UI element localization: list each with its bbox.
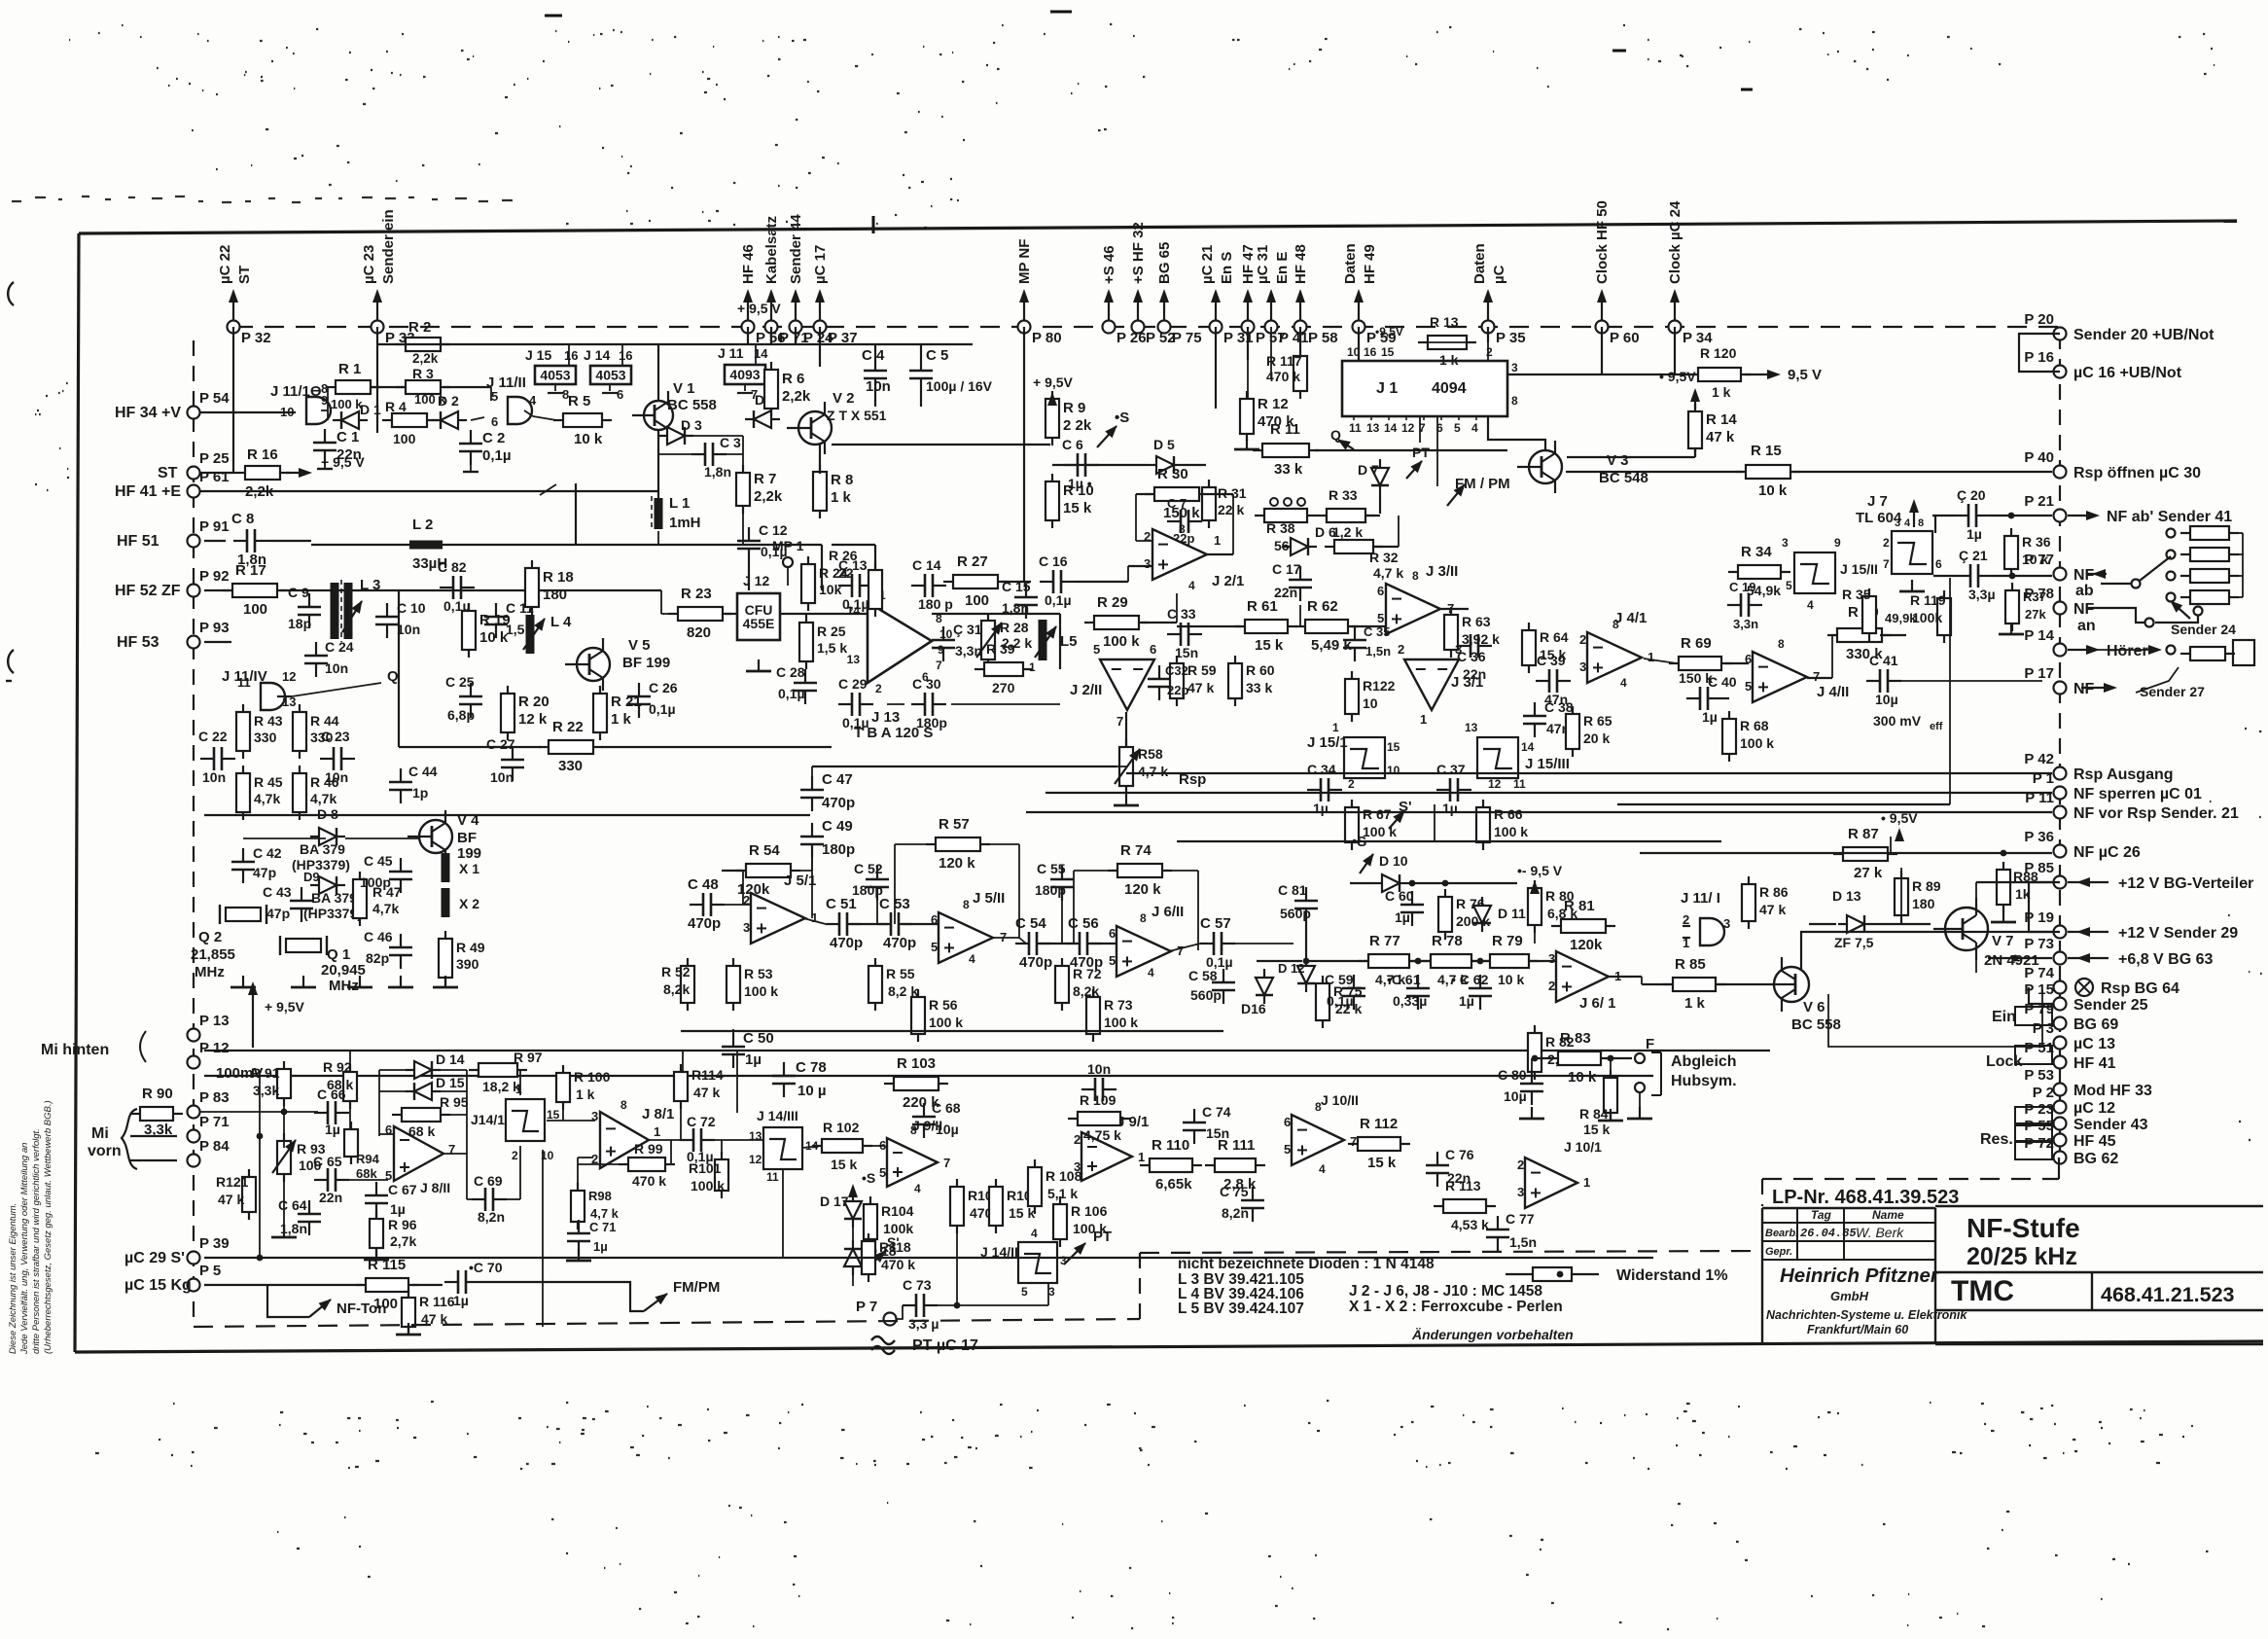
NF-Ton switch xyxy=(267,1285,309,1317)
resistor R37 xyxy=(2005,583,2019,631)
node P59 top connector xyxy=(1358,292,1360,321)
inductor L5 xyxy=(1039,620,1047,660)
wire +9.5V rail xyxy=(377,343,973,345)
svg-text:6: 6 xyxy=(617,387,623,402)
svg-text:8: 8 xyxy=(620,1098,627,1112)
svg-text:8: 8 xyxy=(1511,394,1518,408)
wire xyxy=(795,327,797,344)
svg-text:33 k: 33 k xyxy=(1246,680,1272,695)
wire xyxy=(533,416,556,420)
svg-text:R 119: R 119 xyxy=(1910,592,1946,608)
svg-text:1,8n: 1,8n xyxy=(1002,600,1029,616)
svg-text:10: 10 xyxy=(1387,764,1400,777)
capacitor C58 xyxy=(1212,969,1235,1004)
wire xyxy=(1315,449,1507,451)
wire xyxy=(268,540,311,542)
resistor R78 xyxy=(1421,954,1481,968)
border frame left xyxy=(75,233,79,1352)
svg-text:10 k: 10 k xyxy=(574,431,603,447)
capacitor C37 xyxy=(1436,778,1471,802)
inductor L1 xyxy=(655,498,663,529)
node P20 right connector xyxy=(2054,328,2067,340)
svg-text:10: 10 xyxy=(1363,695,1378,711)
node P26 top connector xyxy=(1108,292,1110,321)
title block box xyxy=(1762,1207,1935,1209)
ground xyxy=(1114,794,1139,805)
svg-text:C 66: C 66 xyxy=(317,1087,346,1102)
IC J1 4094 xyxy=(1342,361,1507,416)
svg-text:C 50: C 50 xyxy=(743,1030,774,1047)
resistor R119 xyxy=(1937,590,1951,643)
wire xyxy=(1116,766,1126,767)
svg-text:• C 62: • C 62 xyxy=(1451,972,1489,987)
svg-text:7: 7 xyxy=(943,1156,950,1170)
svg-text:µC 12: µC 12 xyxy=(2073,1100,2115,1117)
svg-text:X 1: X 1 xyxy=(459,861,479,876)
svg-text:C 74: C 74 xyxy=(1202,1104,1231,1120)
wire xyxy=(575,483,577,545)
wire xyxy=(1440,608,1469,610)
wire xyxy=(794,870,812,872)
wire xyxy=(819,344,821,367)
svg-text:Heinrich Pfitzner: Heinrich Pfitzner xyxy=(1780,1265,1939,1287)
ground xyxy=(396,1323,421,1335)
svg-text:• 9,5V: • 9,5V xyxy=(1659,369,1696,384)
wire xyxy=(780,613,868,615)
svg-text:4094: 4094 xyxy=(1432,380,1467,397)
svg-text:4,7k: 4,7k xyxy=(254,791,280,806)
wire xyxy=(1052,464,1148,466)
diode D12 xyxy=(1297,957,1315,992)
svg-text:J 14: J 14 xyxy=(584,347,610,363)
svg-text:R 36: R 36 xyxy=(2022,534,2051,550)
wire xyxy=(524,410,533,416)
wire xyxy=(321,410,328,411)
svg-text:R 63: R 63 xyxy=(1462,614,1491,629)
wire xyxy=(467,1198,472,1200)
wire xyxy=(1694,391,1696,409)
svg-text:R 23: R 23 xyxy=(681,586,712,602)
wire 100mV drop xyxy=(259,1075,261,1258)
capacitor C2 xyxy=(459,430,482,465)
FM/PM switch xyxy=(603,1282,644,1311)
wire NF vor Rsp xyxy=(1026,811,2052,813)
crystal Q2 xyxy=(220,905,266,924)
svg-text:P 51: P 51 xyxy=(2024,1040,2054,1056)
diode D4 xyxy=(745,410,780,428)
svg-text:100: 100 xyxy=(243,601,267,618)
svg-text:•9,5V: •9,5V xyxy=(1375,325,1403,338)
svg-text:C 81: C 81 xyxy=(1278,882,1307,898)
wire xyxy=(651,496,653,531)
svg-text:100 k: 100 k xyxy=(1740,735,1774,751)
svg-text:L 1: L 1 xyxy=(669,495,690,512)
svg-text:820: 820 xyxy=(687,624,711,641)
wire P85-P19 bracket xyxy=(2029,882,2060,932)
svg-text:10n: 10n xyxy=(202,769,226,785)
title block line xyxy=(1935,1205,2263,1208)
node P84 left connector xyxy=(188,1155,200,1167)
svg-text:10n: 10n xyxy=(490,769,514,785)
wire xyxy=(1409,960,1431,962)
svg-text:L 4: L 4 xyxy=(550,614,572,630)
svg-text:Diese Zeichnung ist unser Eige: Diese Zeichnung ist unser Eigentum. xyxy=(8,1203,18,1354)
wire xyxy=(1142,622,1177,624)
node P21 right connector xyxy=(2054,510,2067,522)
box around P 23 xyxy=(2015,1107,2052,1125)
node P58 top connector xyxy=(1299,292,1301,321)
capacitor C43 xyxy=(290,887,313,922)
svg-text:J 2 - J 6, J8 - J10 : MC 14: J 2 - J 6, J8 - J10 : MC 1458 xyxy=(1349,1283,1542,1300)
svg-text:BF 199: BF 199 xyxy=(622,655,670,671)
svg-text:R 95: R 95 xyxy=(440,1094,469,1110)
capacitor C27 xyxy=(501,746,524,781)
node P79 right connector xyxy=(2054,1017,2067,1030)
svg-text:µC 16 +UB/Not: µC 16 +UB/Not xyxy=(2073,365,2182,381)
svg-text:C 33: C 33 xyxy=(1167,606,1196,622)
wire xyxy=(1901,680,2042,682)
wire xyxy=(547,1120,595,1122)
capacitor C59 xyxy=(1342,975,1365,1010)
svg-text:P 34: P 34 xyxy=(1683,330,1713,346)
svg-text:NF µC 26: NF µC 26 xyxy=(2073,844,2141,861)
svg-text:4,53 k: 4,53 k xyxy=(1451,1217,1489,1232)
svg-text:2: 2 xyxy=(1683,912,1689,927)
svg-text:470 k: 470 k xyxy=(632,1173,666,1189)
svg-text:BG 65: BG 65 xyxy=(1156,242,1173,284)
resistor R46 xyxy=(293,766,306,820)
op-amp J6/I xyxy=(1556,951,1609,1002)
node switch xyxy=(2194,607,2203,616)
svg-text:220 k: 220 k xyxy=(903,1094,939,1111)
resistor R88 xyxy=(1997,862,2010,912)
wire to Rsp xyxy=(812,766,1116,767)
wire xyxy=(243,837,326,839)
svg-text:3,3k: 3,3k xyxy=(144,1122,173,1138)
resistor R69 xyxy=(1669,657,1731,670)
svg-text:ZF 7,5: ZF 7,5 xyxy=(1834,935,1874,950)
capacitor C77 xyxy=(1486,1216,1509,1251)
svg-text:15: 15 xyxy=(547,1108,560,1122)
svg-text:15 k: 15 k xyxy=(1009,1205,1035,1221)
svg-text:Clock µC 24: Clock µC 24 xyxy=(1667,200,1683,284)
svg-text:J 3/1: J 3/1 xyxy=(1451,674,1483,691)
svg-text:1: 1 xyxy=(1648,650,1654,664)
wire xyxy=(1074,870,1108,872)
capacitor C31 xyxy=(932,626,955,661)
svg-text:26.04.85: 26.04.85 xyxy=(1800,1227,1857,1240)
wire dashed xyxy=(1762,1178,2059,1180)
svg-text:8: 8 xyxy=(963,898,970,911)
wire xyxy=(902,923,939,925)
svg-text:14: 14 xyxy=(1384,421,1398,435)
svg-text:HF 48: HF 48 xyxy=(1293,244,1309,284)
svg-text:1: 1 xyxy=(515,1083,522,1096)
svg-text:C 24: C 24 xyxy=(325,639,354,655)
svg-text:1µ: 1µ xyxy=(390,1201,406,1217)
svg-text:C 2: C 2 xyxy=(482,430,505,446)
svg-text:C 80: C 80 xyxy=(1498,1067,1527,1083)
svg-text:P 16: P 16 xyxy=(2024,349,2054,366)
svg-text:P 42: P 42 xyxy=(2024,751,2054,767)
box around P 51 xyxy=(2015,1046,2052,1064)
wire xyxy=(1299,327,1301,348)
capacitor C72 xyxy=(680,1128,715,1152)
svg-text:15 k: 15 k xyxy=(831,1157,857,1172)
diode D8 xyxy=(310,828,345,845)
svg-text:33 k: 33 k xyxy=(1274,461,1303,478)
diode D17 xyxy=(844,1193,862,1228)
svg-text:C 57: C 57 xyxy=(1200,915,1231,932)
resistor R9 xyxy=(1045,391,1059,445)
svg-text:100: 100 xyxy=(965,592,989,609)
svg-text:Res.: Res. xyxy=(1980,1131,2013,1148)
svg-text:3: 3 xyxy=(1048,1285,1055,1299)
paper punch mark xyxy=(8,282,14,305)
wire xyxy=(1471,960,1490,962)
wire xyxy=(1434,804,1435,841)
resistor R21 xyxy=(593,686,607,740)
node P85 right connector xyxy=(2054,876,2067,889)
node P57 top connector xyxy=(1247,292,1249,321)
svg-text:BC 558: BC 558 xyxy=(1791,1016,1841,1033)
svg-text:R 69: R 69 xyxy=(1681,635,1712,652)
node P5 left connector xyxy=(188,1279,200,1292)
svg-text:C 76: C 76 xyxy=(1445,1147,1474,1162)
wire xyxy=(802,1146,820,1148)
svg-text:C 41: C 41 xyxy=(1869,653,1898,668)
svg-text:J 11/1Ө: J 11/1Ө xyxy=(270,383,322,400)
op-amp J10/II xyxy=(1292,1115,1344,1165)
svg-text:J 2/II: J 2/II xyxy=(1070,682,1102,698)
svg-text:470p: 470p xyxy=(1019,954,1052,971)
node P12 left connector xyxy=(188,1056,200,1069)
svg-text:BC 558: BC 558 xyxy=(667,397,717,413)
capacitor C12 xyxy=(737,527,761,562)
node P11 right connector xyxy=(2054,806,2067,819)
svg-text:C 67: C 67 xyxy=(388,1182,417,1197)
svg-text:BG 62: BG 62 xyxy=(2073,1151,2118,1167)
capacitor C33 xyxy=(1167,623,1202,646)
svg-text:4,7 k: 4,7 k xyxy=(590,1206,620,1221)
wire xyxy=(327,387,329,420)
svg-text:6: 6 xyxy=(1109,926,1116,941)
resistor R45 xyxy=(236,766,250,820)
svg-text:10µ: 10µ xyxy=(1504,1088,1527,1104)
svg-text:R 25: R 25 xyxy=(817,624,846,639)
capacitor C14 xyxy=(911,574,946,597)
resistor R33 xyxy=(1317,509,1375,522)
wire xyxy=(2028,987,2030,1004)
resistor R49 xyxy=(439,931,452,985)
svg-text:P 12: P 12 xyxy=(199,1040,230,1056)
svg-text:9: 9 xyxy=(1834,536,1841,550)
resistor R82 xyxy=(1528,1025,1542,1080)
resistor R27 xyxy=(943,575,1008,588)
svg-text:R118: R118 xyxy=(879,1239,911,1255)
resistor R90 xyxy=(130,1107,183,1121)
svg-text:En E: En E xyxy=(1274,252,1291,284)
node P93 left connector xyxy=(188,636,200,649)
node P14 right connector xyxy=(2054,644,2067,657)
diode D6 xyxy=(1282,538,1317,555)
wire xyxy=(770,327,772,344)
wire NF sperren xyxy=(1045,792,2052,794)
svg-text:C 78: C 78 xyxy=(796,1059,827,1076)
svg-text:C 56: C 56 xyxy=(1068,915,1099,932)
svg-text:R 52: R 52 xyxy=(661,964,691,980)
wire xyxy=(130,1159,177,1161)
wire xyxy=(874,392,876,407)
svg-text:•S: •S xyxy=(1115,410,1129,426)
wire xyxy=(865,1145,885,1147)
svg-text:R 14: R 14 xyxy=(1706,411,1737,428)
diode D13 xyxy=(1838,915,1873,933)
resistor R111 xyxy=(1205,1158,1265,1172)
wire xyxy=(1059,614,1061,669)
resistor R109 xyxy=(1068,1112,1130,1125)
wire P32 drop xyxy=(232,327,234,473)
wire pin3 to R120 xyxy=(1507,374,1602,375)
svg-text:R 45: R 45 xyxy=(254,774,283,790)
wire xyxy=(1900,868,1902,877)
resistor R14 xyxy=(1688,404,1702,456)
capacitor C76 xyxy=(1426,1152,1449,1187)
svg-text:C 58: C 58 xyxy=(1188,968,1218,983)
svg-text:Ç 20: Ç 20 xyxy=(1957,487,1986,503)
resistor R98 xyxy=(571,1183,585,1229)
nand gate J11/II xyxy=(508,397,532,424)
svg-text:C 59: C 59 xyxy=(1325,972,1354,987)
svg-text:J 4/1: J 4/1 xyxy=(1614,610,1647,626)
capacitor C82 xyxy=(440,576,475,599)
resistor R72 xyxy=(1055,958,1069,1011)
svg-text:C 45: C 45 xyxy=(364,853,393,869)
wire xyxy=(920,392,922,407)
svg-text:C 46: C 46 xyxy=(364,929,393,944)
svg-text:3: 3 xyxy=(743,920,750,935)
wire xyxy=(932,613,1060,615)
svg-text:R 46: R 46 xyxy=(310,774,339,790)
svg-text:C 29: C 29 xyxy=(838,676,868,692)
svg-text:R 13: R 13 xyxy=(1430,314,1459,330)
svg-text:470p: 470p xyxy=(883,935,916,951)
svg-text:J 6/ 1: J 6/ 1 xyxy=(1579,995,1616,1012)
wire xyxy=(1566,471,1743,473)
svg-text:2: 2 xyxy=(1074,1132,1081,1147)
svg-text:R 106: R 106 xyxy=(1071,1203,1108,1219)
ground xyxy=(1627,1107,1652,1119)
node P80 top connector xyxy=(1023,292,1025,321)
wire HF52 ZF row xyxy=(204,589,230,591)
capacitor C13 xyxy=(838,574,873,597)
wire xyxy=(1610,1058,1612,1078)
transistor V3 BC548 xyxy=(1517,441,1562,493)
wire V2 emitter row xyxy=(832,444,1050,445)
ground xyxy=(388,976,413,987)
resistor R103 xyxy=(884,1077,948,1090)
svg-text:C 44: C 44 xyxy=(408,764,438,779)
wire xyxy=(471,417,484,420)
svg-text:C 52: C 52 xyxy=(854,861,883,876)
wire xyxy=(1257,960,1302,962)
svg-text:+S HF 32: +S HF 32 xyxy=(1130,222,1147,284)
svg-text:2N 4921: 2N 4921 xyxy=(1984,952,2039,969)
wire xyxy=(441,1114,467,1116)
svg-text:2,2k: 2,2k xyxy=(782,388,811,405)
svg-text:3: 3 xyxy=(1060,1254,1067,1267)
svg-text:J14/1: J14/1 xyxy=(471,1112,505,1127)
resistor R95 xyxy=(392,1108,450,1122)
ferrite bead X1 xyxy=(442,853,450,882)
wire xyxy=(876,901,878,924)
op-amp J13 TBA120S xyxy=(868,602,932,683)
wire xyxy=(441,1069,467,1071)
capacitor C61 xyxy=(1406,975,1430,1010)
svg-text:P 83: P 83 xyxy=(199,1089,230,1106)
svg-text:1µ: 1µ xyxy=(1395,909,1410,925)
wire xyxy=(1379,494,1381,514)
svg-text:12: 12 xyxy=(1401,421,1415,435)
svg-text:15 k: 15 k xyxy=(1583,1122,1610,1137)
wire xyxy=(1169,944,1200,951)
svg-text:4: 4 xyxy=(969,952,975,966)
svg-text:10 k: 10 k xyxy=(1568,1069,1597,1086)
wire xyxy=(787,567,789,586)
svg-text:Rsp BG 64: Rsp BG 64 xyxy=(2101,980,2179,997)
wire Rsp Ausgang xyxy=(1126,772,2052,774)
svg-text:1µ: 1µ xyxy=(325,1122,340,1137)
wire xyxy=(1202,493,1233,495)
node P19 right connector xyxy=(2054,926,2067,939)
svg-text:3,3 µ: 3,3 µ xyxy=(908,1316,939,1332)
node P72 right connector xyxy=(2054,1152,2067,1164)
wire xyxy=(1136,540,1152,542)
svg-text:R 9: R 9 xyxy=(1063,400,1085,416)
svg-text:R 49: R 49 xyxy=(456,940,485,955)
svg-text:FM/PM: FM/PM xyxy=(673,1279,720,1296)
svg-text:0,1µ: 0,1µ xyxy=(842,715,869,730)
op-amp J3/I xyxy=(1404,659,1459,710)
svg-text:180: 180 xyxy=(1912,896,1935,911)
ground xyxy=(1519,1107,1544,1119)
svg-text:330: 330 xyxy=(558,758,583,774)
wire P35 drop xyxy=(1487,327,1489,342)
diode D16 xyxy=(1256,969,1273,1004)
resistor R13 xyxy=(1418,336,1476,349)
svg-text:14: 14 xyxy=(847,604,861,618)
svg-text:13: 13 xyxy=(1366,421,1380,435)
svg-text:P 58: P 58 xyxy=(1308,330,1338,346)
svg-text:R 12: R 12 xyxy=(1258,396,1289,412)
svg-text:1: 1 xyxy=(654,1124,660,1139)
wire xyxy=(850,923,888,925)
wire xyxy=(1531,1058,1533,1070)
switch J14/II xyxy=(1018,1242,1057,1283)
wire dashed xyxy=(1761,1179,1763,1206)
svg-text:ab: ab xyxy=(2075,583,2094,599)
wire xyxy=(1177,625,1241,627)
capacitor C50 xyxy=(722,1033,745,1068)
wire xyxy=(1529,960,1556,962)
svg-text:R121: R121 xyxy=(216,1174,249,1190)
capacitor C79b xyxy=(1081,1078,1116,1101)
resistor R83 xyxy=(1548,1051,1611,1065)
svg-text:5: 5 xyxy=(879,1165,886,1180)
wire xyxy=(1365,515,1380,517)
svg-text:1µ: 1µ xyxy=(453,1293,469,1308)
svg-text:2,2k: 2,2k xyxy=(412,351,439,366)
